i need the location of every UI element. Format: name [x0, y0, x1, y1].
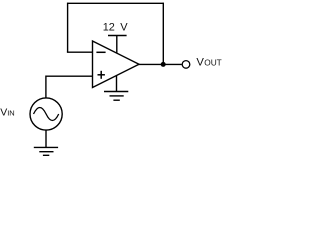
op-amp U1	[93, 41, 140, 88]
wire noninverting input	[46, 75, 93, 77]
wire VIN to ground	[45, 130, 47, 147]
svg-text:VIN: VIN	[0, 107, 15, 119]
op-amp plus sign	[98, 71, 105, 79]
op-amp power pin	[116, 36, 118, 54]
terminal VOUT	[182, 61, 190, 69]
power rail bar 12V	[108, 35, 127, 37]
ground (op-amp)	[104, 92, 128, 101]
junction dot output node	[161, 62, 166, 67]
wire feedback top rail	[68, 2, 164, 4]
wire feedback left vertical	[67, 3, 69, 53]
wire VIN vertical	[45, 76, 47, 98]
svg-text:VOUT: VOUT	[196, 57, 221, 69]
source V(IN)	[30, 98, 62, 130]
op-amp ground pin	[116, 76, 118, 92]
op-amp minus sign	[96, 51, 105, 53]
svg-text:V: V	[120, 21, 128, 33]
sine symbol	[34, 108, 59, 121]
wire feedback right vertical	[162, 3, 164, 65]
svg-text:12: 12	[103, 21, 115, 33]
wire output	[139, 63, 182, 65]
wire inverting input	[67, 51, 93, 53]
ground (VIN)	[34, 147, 58, 155]
